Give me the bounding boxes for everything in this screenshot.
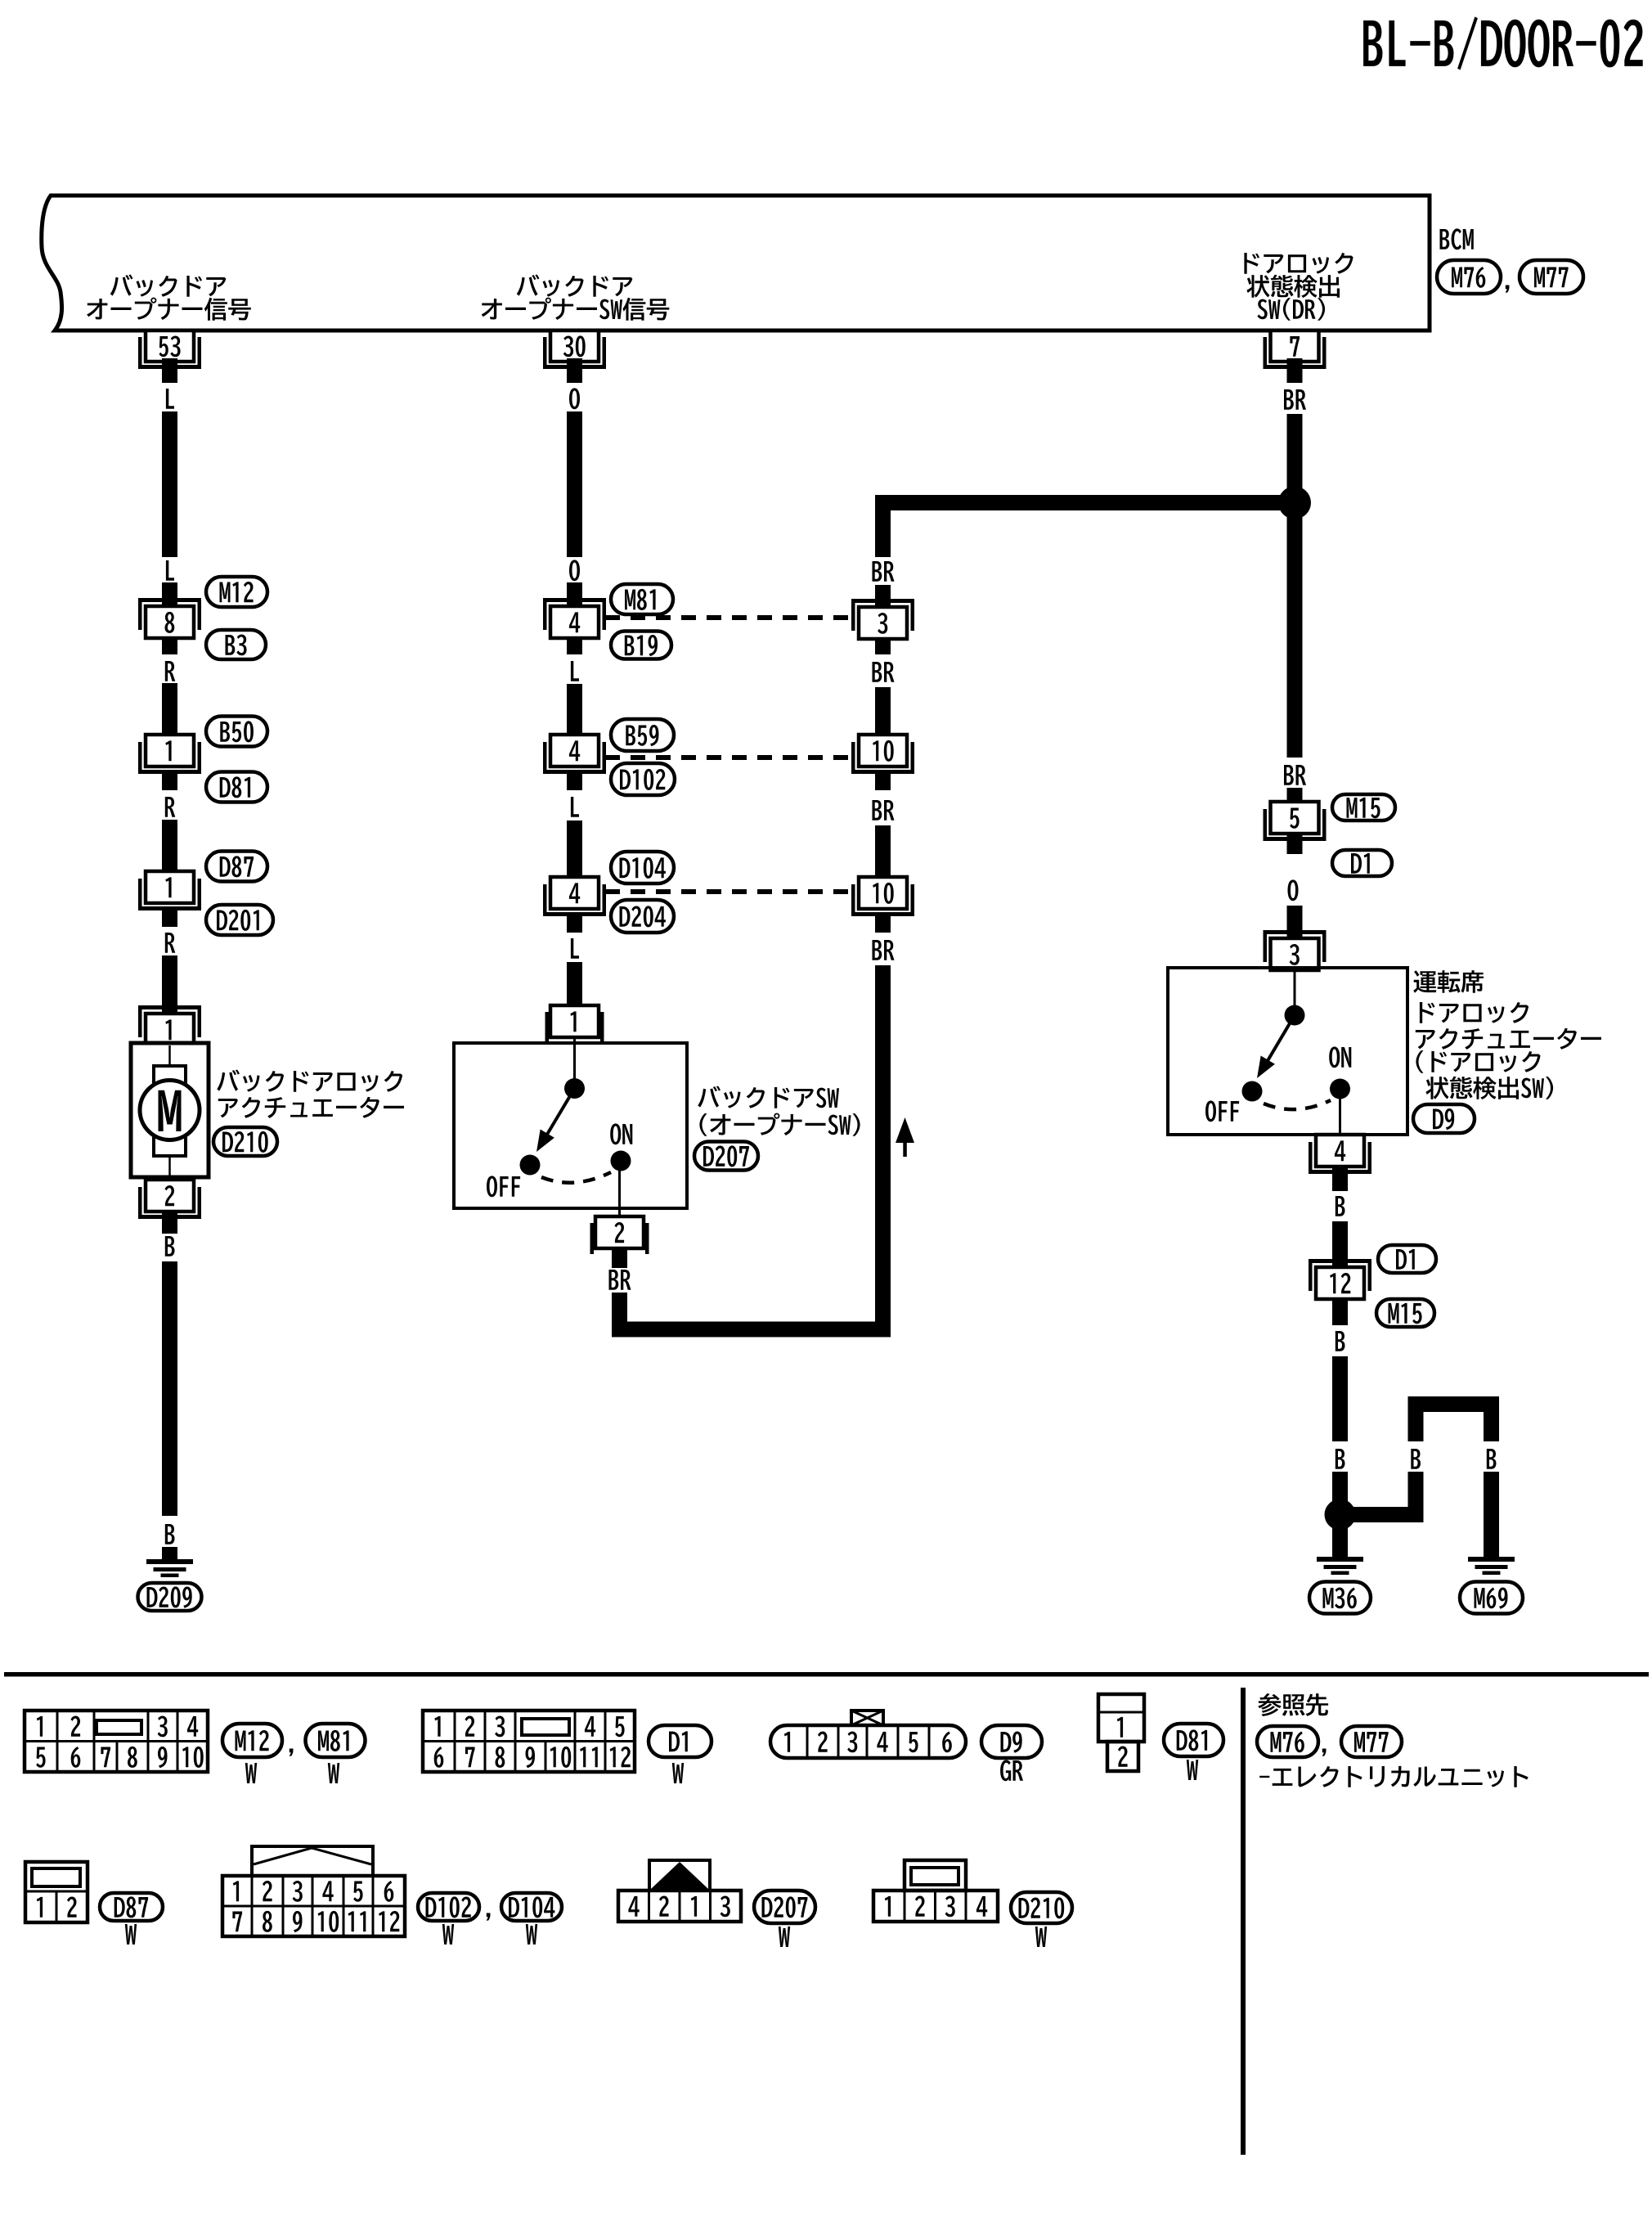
comma — [487, 1913, 491, 1921]
dashed pair line D104/D204 — [605, 889, 857, 894]
comma — [1506, 285, 1510, 293]
connector 4 (M81/B19) — [543, 598, 606, 638]
connector 12 (D1/M15) — [1309, 1259, 1371, 1299]
connector D210 (pinout) — [1011, 1892, 1072, 1923]
wire stub below pin 4 — [1332, 1167, 1348, 1191]
label W — [779, 1927, 790, 1947]
switch throw dashed arc — [541, 1172, 611, 1183]
connector D207 (pinout) — [754, 1891, 815, 1923]
switch ON contact — [611, 1151, 631, 1171]
connector M15 — [1376, 1299, 1434, 1327]
switch OFF contact — [1242, 1081, 1263, 1102]
BCM box — [42, 196, 1430, 330]
comma — [1322, 1749, 1327, 1756]
label BR — [609, 1270, 631, 1290]
label GR — [1000, 1760, 1023, 1781]
wire stub to ground — [162, 1547, 177, 1560]
switch pivot contact — [1285, 1005, 1305, 1026]
connector M77 (BCM) — [1520, 260, 1583, 294]
connector 1 (D87/D201) — [138, 871, 201, 910]
pin 30 (BCM) — [543, 330, 606, 383]
wire R to D87 — [162, 820, 177, 872]
wire B to ground — [162, 1261, 177, 1516]
wire junction to ground M36 — [1332, 1523, 1348, 1559]
label W — [328, 1763, 339, 1783]
dashed pair line M81/B19 — [605, 615, 857, 620]
switch ON line — [1339, 1089, 1341, 1135]
connector B19 — [611, 632, 671, 659]
ground M69 — [1468, 1557, 1515, 1575]
connector B50 — [206, 717, 267, 747]
actuator commutator box — [154, 1066, 186, 1156]
connector 4 (B59/D102) — [543, 735, 606, 774]
wire stub below connector 12 — [1332, 1299, 1348, 1325]
wire R to B50 — [162, 683, 177, 735]
pin 3 (door lock actuator) — [1264, 930, 1327, 970]
label W — [442, 1924, 454, 1945]
wire stub below B50 — [162, 772, 177, 790]
label electrical unit — [1259, 1766, 1529, 1787]
wire O from pin 30 — [567, 369, 582, 557]
wire branch right upper — [1484, 1412, 1499, 1441]
wire L from pin 53 — [162, 369, 177, 557]
motor M circle — [140, 1081, 200, 1140]
BCM label — [1440, 228, 1474, 250]
label L — [571, 938, 579, 959]
connector D210 label — [213, 1127, 277, 1156]
wire stub above connector 5 — [1287, 788, 1303, 803]
label L — [166, 560, 174, 581]
label ON — [610, 1123, 632, 1144]
label door lock status detect SW (DR) — [1244, 253, 1353, 321]
label B — [1336, 1196, 1345, 1216]
connector D104 (pinout) — [501, 1893, 562, 1921]
label back door lock actuator — [217, 1070, 404, 1118]
connector 10 (D104/D204 pair) — [851, 877, 914, 916]
label OFF — [487, 1176, 520, 1197]
pinout grid M12/M81 — [25, 1711, 208, 1772]
connector M12 — [206, 577, 267, 607]
connector 1 (B50/D81) — [138, 735, 201, 774]
switch throw dashed arc — [1264, 1100, 1331, 1109]
label BR — [1284, 765, 1306, 785]
wire R to actuator — [162, 955, 177, 1014]
connector D209 — [138, 1583, 202, 1611]
wire BR down from back door SW — [612, 1293, 627, 1338]
label W — [125, 1924, 137, 1945]
pinout grid D102/D104 — [222, 1846, 405, 1936]
pin 2 (back door SW) — [590, 1216, 649, 1254]
wire BR horizontal to column 3 — [612, 1322, 891, 1338]
connector M81 (pinout) — [306, 1724, 366, 1757]
switch ON line — [618, 1161, 621, 1216]
wire stub below B59 — [567, 772, 582, 790]
title BL-B/DOOR-02 — [1363, 16, 1643, 70]
connector D104 — [611, 852, 674, 883]
switch ON contact — [1330, 1079, 1350, 1099]
label W — [1187, 1760, 1198, 1780]
connector M36 — [1309, 1582, 1371, 1614]
wire stub below D87 — [162, 909, 177, 927]
ground junction node — [1325, 1499, 1356, 1531]
label BR — [1284, 389, 1306, 410]
pinout grid D87 — [25, 1862, 88, 1922]
connector D1 — [1332, 850, 1392, 876]
wire into ground junction — [1332, 1472, 1348, 1514]
wire stub below connector 3 — [875, 639, 891, 654]
wire stub below connector 10 — [875, 772, 891, 790]
connector D102 — [611, 763, 675, 795]
pinout grid D207 — [618, 1860, 741, 1922]
comma — [290, 1749, 294, 1756]
connector M76 (reference) — [1257, 1726, 1318, 1757]
pinout grid D9 — [770, 1711, 966, 1758]
wire BR to second connector 10 — [875, 825, 891, 878]
wire branch right to ground M69 — [1484, 1472, 1499, 1559]
label W — [1035, 1927, 1047, 1947]
connector M15 — [1332, 794, 1395, 821]
pin 53 (BCM) — [138, 330, 201, 383]
connector M69 — [1460, 1582, 1523, 1614]
label R — [165, 661, 176, 681]
connector 8 (M12/B3) — [138, 598, 201, 638]
wire branch bridge top — [1408, 1396, 1500, 1412]
wire stub below D104 — [567, 915, 582, 933]
wire stub below connector 5 — [1287, 834, 1303, 854]
pinout grid D210 — [873, 1860, 998, 1922]
switch arm — [536, 1089, 575, 1153]
wire L to D104 — [567, 821, 582, 878]
connector M81 — [611, 584, 673, 614]
connector M12 (pinout) — [222, 1724, 282, 1757]
connector 3 (M81/B19 pair) — [851, 599, 914, 639]
switch common line — [573, 1039, 576, 1080]
connector D201 — [206, 905, 273, 935]
label O — [569, 388, 580, 409]
wire L to B59 — [567, 684, 582, 735]
label B — [1336, 1331, 1345, 1351]
wire branch horizontal — [1340, 1507, 1424, 1522]
label L — [571, 661, 579, 681]
label back door opener signal — [87, 275, 251, 321]
wire stub below M81 — [567, 638, 582, 654]
label W — [245, 1763, 257, 1783]
connector M76 (BCM) — [1437, 260, 1501, 294]
label reference — [1258, 1693, 1328, 1716]
wire stub below pin 2 — [612, 1248, 627, 1268]
connector D1 (pinout) — [649, 1725, 712, 1757]
pin 1 (back door SW) — [545, 1005, 604, 1043]
connector D9 label — [1413, 1104, 1475, 1133]
connector D87 (pinout) — [100, 1893, 163, 1921]
label B — [1411, 1449, 1421, 1469]
label B — [165, 1236, 175, 1257]
connector D87 — [206, 852, 267, 882]
wire BR down to M15 connector — [1287, 510, 1303, 758]
wire stub below M12 — [162, 638, 177, 654]
wire BR from pin 7 — [1287, 369, 1303, 496]
actuator inner link bottom — [168, 1156, 171, 1176]
back door lock actuator box — [131, 1043, 209, 1177]
flow arrow up — [896, 1117, 914, 1157]
ground D209 — [146, 1559, 193, 1577]
wire BR to connector 10 — [875, 687, 891, 735]
door lock actuator box — [1168, 968, 1407, 1135]
wire branch riser — [1408, 1472, 1424, 1522]
wire stub below second connector 10 — [875, 915, 891, 933]
actuator inner link top — [168, 1045, 171, 1066]
label O — [1288, 879, 1299, 901]
wire BR corner from junction — [875, 495, 891, 557]
label driver door lock actuator — [1413, 970, 1601, 1099]
label BR — [873, 800, 895, 821]
reference divider — [1241, 1688, 1246, 2155]
label back door opener SW signal — [482, 275, 670, 321]
pin 2 (back door lock actuator) — [138, 1180, 201, 1219]
dashed pair line B59/D102 — [605, 755, 857, 760]
label O — [569, 560, 580, 581]
switch pivot contact — [564, 1078, 585, 1099]
pinout grid D1 — [423, 1711, 635, 1772]
pin 4 (door lock actuator) — [1309, 1135, 1371, 1174]
label OFF — [1205, 1100, 1239, 1122]
label W — [526, 1924, 537, 1945]
wire stub above M81 — [567, 582, 582, 606]
pin 7 (BCM) — [1264, 330, 1327, 383]
connector B59 — [611, 719, 674, 751]
connector M77 (reference) — [1341, 1726, 1402, 1757]
connector D81 — [206, 772, 267, 803]
switch arm — [1257, 1015, 1295, 1078]
connector 5 (M15/D1) — [1264, 802, 1327, 841]
label back door SW (opener SW) — [698, 1086, 860, 1136]
label L — [166, 389, 174, 409]
connector D81 (pinout) — [1164, 1724, 1223, 1756]
connector 4 (D104/D204) — [543, 877, 606, 916]
pin 1 (back door lock actuator) — [138, 1005, 201, 1045]
switch common line — [1294, 966, 1296, 1006]
connector D1 — [1378, 1245, 1436, 1273]
label BR — [873, 940, 895, 960]
label R — [165, 933, 176, 953]
junction node — [1278, 487, 1311, 519]
connector D204 — [611, 900, 674, 933]
wire stub below pin 2 — [162, 1212, 177, 1234]
connector 10 (B59/D102 pair) — [851, 735, 914, 774]
wire stub above connector 3 — [875, 585, 891, 607]
label B — [165, 1524, 175, 1544]
junction wire horizontal — [875, 495, 1303, 510]
connector B3 — [206, 630, 266, 659]
wire B to connector 12 — [1332, 1221, 1348, 1268]
ground M36 — [1317, 1557, 1363, 1575]
wire branch riser upper — [1408, 1412, 1424, 1441]
connector D207 label — [694, 1142, 758, 1171]
separator line — [4, 1672, 1649, 1677]
wire BR long down to corner — [875, 965, 891, 1338]
pinout grid D81 — [1098, 1694, 1144, 1771]
label BR — [873, 662, 895, 682]
wire L to back door SW — [567, 962, 582, 1005]
label W — [672, 1763, 684, 1783]
label BR — [873, 561, 895, 582]
connector D102 (pinout) — [418, 1893, 479, 1921]
label B — [1336, 1449, 1345, 1469]
wire B to ground junction — [1332, 1356, 1348, 1441]
label L — [571, 797, 579, 817]
wire stub above M12 — [162, 582, 177, 606]
wire O to pin 3 — [1287, 906, 1303, 939]
label R — [165, 797, 176, 817]
label B — [1487, 1449, 1497, 1469]
connector D9 (pinout) — [981, 1725, 1042, 1758]
back door SW box — [454, 1043, 687, 1208]
label ON — [1329, 1046, 1351, 1068]
switch OFF contact — [520, 1155, 541, 1176]
